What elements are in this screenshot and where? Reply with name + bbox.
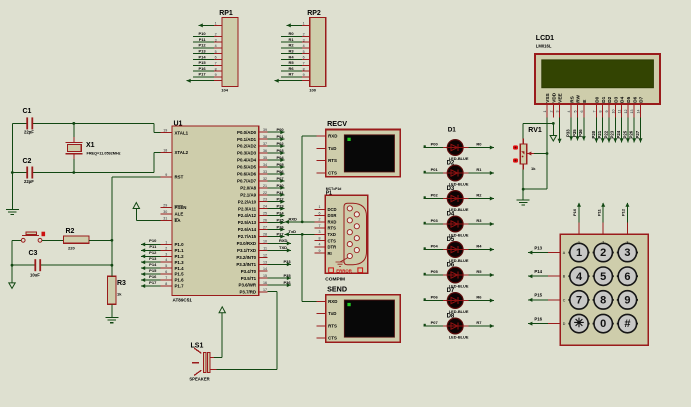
svg-text:RXD: RXD [328, 299, 337, 304]
svg-text:RXD: RXD [328, 219, 337, 224]
svg-text:6: 6 [215, 56, 217, 60]
svg-text:CTS: CTS [328, 336, 337, 341]
svg-text:P15: P15 [534, 293, 542, 298]
svg-text:3: 3 [215, 38, 217, 42]
svg-text:D5: D5 [447, 237, 455, 243]
svg-text:P11: P11 [596, 208, 601, 216]
svg-text:VSS: VSS [545, 93, 550, 102]
svg-text:P00: P00 [431, 142, 439, 147]
svg-text:P11: P11 [199, 37, 207, 42]
svg-text:D6: D6 [447, 262, 455, 268]
svg-text:P25: P25 [622, 130, 627, 138]
svg-text:1: 1 [215, 22, 217, 26]
svg-text:R3: R3 [117, 280, 126, 287]
svg-text:P12: P12 [621, 208, 626, 216]
svg-text:2: 2 [303, 33, 305, 37]
svg-text:P01: P01 [431, 167, 439, 172]
svg-text:R3: R3 [476, 218, 482, 223]
svg-text:P0.3/AD3: P0.3/AD3 [237, 151, 257, 156]
svg-text:P3.7/RD: P3.7/RD [240, 290, 257, 295]
svg-text:P20: P20 [277, 183, 285, 188]
svg-text:EA: EA [175, 218, 182, 223]
svg-text:P3.6/WR: P3.6/WR [239, 283, 257, 288]
svg-text:7: 7 [576, 295, 582, 307]
svg-text:10: 10 [611, 110, 615, 114]
svg-text:ERROR: ERROR [336, 268, 352, 273]
svg-text:D1: D1 [601, 96, 606, 102]
svg-text:P20: P20 [591, 130, 596, 138]
svg-text:9: 9 [624, 295, 630, 307]
svg-text:29: 29 [163, 204, 167, 208]
svg-text:10: 10 [263, 239, 267, 243]
svg-text:P2.2/A10: P2.2/A10 [238, 199, 257, 204]
svg-text:D4: D4 [447, 211, 455, 217]
svg-text:RXD: RXD [289, 216, 298, 221]
svg-text:R2: R2 [476, 193, 482, 198]
svg-text:12: 12 [263, 253, 267, 257]
svg-text:P15: P15 [149, 268, 157, 273]
svg-text:30: 30 [163, 210, 167, 214]
svg-text:C1: C1 [23, 108, 32, 115]
svg-text:P01: P01 [277, 134, 285, 139]
svg-text:4: 4 [567, 111, 571, 113]
svg-text:P13: P13 [534, 245, 542, 250]
svg-text:TxD: TxD [328, 311, 336, 316]
svg-text:1: 1 [578, 241, 580, 245]
svg-text:2: 2 [600, 247, 606, 259]
svg-text:11: 11 [618, 110, 622, 114]
svg-text:R0: R0 [288, 31, 294, 36]
svg-text:P33: P33 [284, 259, 292, 264]
svg-text:8: 8 [600, 295, 606, 307]
svg-text:9: 9 [215, 73, 217, 77]
svg-text:R5: R5 [476, 269, 482, 274]
svg-text:17: 17 [263, 288, 267, 292]
svg-text:P1.0: P1.0 [175, 242, 185, 247]
svg-text:LED-BLUE: LED-BLUE [449, 334, 469, 339]
svg-text:P05: P05 [277, 162, 285, 167]
svg-text:R4: R4 [476, 244, 482, 249]
svg-text:P03: P03 [277, 148, 285, 153]
svg-text:LM016L: LM016L [536, 44, 552, 49]
svg-text:P1.6: P1.6 [175, 278, 185, 283]
svg-text:DTR: DTR [328, 245, 337, 250]
svg-text:P2.7/A15: P2.7/A15 [238, 234, 257, 239]
svg-text:P3.0/RXD: P3.0/RXD [237, 241, 257, 246]
svg-text:P0.6/AD6: P0.6/AD6 [237, 172, 257, 177]
svg-text:C: C [563, 298, 566, 302]
svg-text:R1: R1 [476, 167, 482, 172]
svg-text:4: 4 [215, 44, 217, 48]
svg-text:P14: P14 [149, 262, 157, 267]
svg-text:27: 27 [263, 226, 267, 230]
svg-text:D8: D8 [447, 313, 455, 319]
svg-text:6: 6 [580, 111, 584, 113]
svg-text:TxD: TxD [289, 229, 297, 234]
svg-text:14: 14 [637, 110, 641, 114]
svg-text:RTS: RTS [328, 226, 337, 231]
svg-text:25: 25 [263, 212, 267, 216]
svg-text:35: 35 [263, 156, 267, 160]
svg-text:P27: P27 [277, 231, 285, 236]
svg-text:R5: R5 [288, 60, 294, 65]
svg-text:5: 5 [600, 271, 606, 283]
svg-text:P3.3/INT1: P3.3/INT1 [236, 262, 256, 267]
svg-text:RXD: RXD [279, 238, 288, 243]
svg-text:P36: P36 [578, 129, 583, 137]
svg-text:1: 1 [543, 111, 547, 113]
svg-text:P1.2: P1.2 [175, 254, 185, 259]
svg-text:P0.4/AD4: P0.4/AD4 [237, 158, 257, 163]
svg-text:D6: D6 [632, 96, 637, 102]
svg-text:P21: P21 [277, 190, 285, 195]
svg-text:P0.5/AD5: P0.5/AD5 [237, 165, 257, 170]
svg-text:SEND: SEND [327, 284, 347, 293]
svg-text:5: 5 [165, 264, 167, 268]
svg-text:1: 1 [576, 247, 582, 259]
svg-text:5: 5 [574, 111, 578, 113]
svg-text:22: 22 [263, 191, 267, 195]
svg-text:P12: P12 [198, 43, 206, 48]
svg-text:RST: RST [175, 175, 184, 180]
svg-text:RTS: RTS [328, 158, 337, 163]
svg-text:VDD: VDD [551, 92, 556, 103]
svg-text:R6: R6 [476, 295, 482, 300]
svg-text:RP1: RP1 [219, 10, 233, 17]
svg-text:P1.4: P1.4 [175, 266, 185, 271]
svg-text:P13: P13 [149, 256, 157, 261]
svg-text:7: 7 [165, 276, 167, 280]
svg-text:P2.5/A13: P2.5/A13 [238, 220, 257, 225]
svg-text:P00: P00 [277, 127, 285, 132]
svg-text:✳: ✳ [574, 316, 585, 330]
svg-text:P27: P27 [635, 130, 640, 138]
svg-text:19: 19 [163, 129, 167, 133]
svg-text:COMPIM: COMPIM [325, 277, 345, 283]
svg-text:R1: R1 [288, 37, 294, 42]
svg-text:P3.2/INT0: P3.2/INT0 [236, 255, 256, 260]
svg-text:TXD: TXD [279, 245, 287, 250]
svg-text:P04: P04 [277, 155, 285, 160]
svg-text:26: 26 [263, 219, 267, 223]
svg-text:13: 13 [263, 260, 267, 264]
svg-text:24: 24 [263, 205, 267, 209]
svg-text:11: 11 [263, 246, 267, 250]
svg-text:C3: C3 [29, 250, 38, 257]
svg-text:D2: D2 [447, 160, 455, 166]
svg-text:D5: D5 [626, 96, 631, 102]
svg-text:P16: P16 [149, 274, 157, 279]
svg-text:7: 7 [215, 62, 217, 66]
svg-text:R6: R6 [288, 66, 294, 71]
svg-text:P3.4/T0: P3.4/T0 [241, 269, 257, 274]
svg-text:16: 16 [263, 281, 267, 285]
svg-text:P0.0/AD0: P0.0/AD0 [237, 130, 257, 135]
svg-text:1: 1 [319, 205, 321, 209]
svg-text:P22: P22 [603, 130, 608, 138]
svg-text:DCD: DCD [328, 207, 337, 212]
svg-text:P02: P02 [431, 193, 439, 198]
svg-text:XTAL2: XTAL2 [175, 150, 189, 155]
svg-text:P0.7/AD7: P0.7/AD7 [237, 178, 257, 183]
svg-text:5: 5 [303, 50, 305, 54]
svg-text:P24: P24 [616, 130, 621, 138]
svg-text:7: 7 [303, 62, 305, 66]
svg-text:220: 220 [68, 245, 75, 250]
svg-text:D7: D7 [447, 288, 455, 294]
svg-text:R7: R7 [288, 72, 294, 77]
svg-text:P3.1/TXD: P3.1/TXD [237, 248, 256, 253]
svg-text:RI: RI [328, 251, 332, 256]
svg-text:RXD: RXD [328, 134, 337, 139]
svg-text:FREQ=11.0592MHz: FREQ=11.0592MHz [87, 152, 121, 156]
svg-text:P24: P24 [277, 211, 285, 216]
svg-text:P22: P22 [277, 197, 285, 202]
svg-text:8: 8 [165, 282, 167, 286]
svg-text:D7: D7 [639, 96, 644, 102]
svg-text:P03: P03 [431, 218, 439, 223]
svg-text:ALE: ALE [175, 212, 184, 217]
svg-text:R2: R2 [66, 228, 75, 235]
svg-text:2: 2 [549, 111, 553, 113]
svg-text:6: 6 [165, 270, 167, 274]
svg-text:D: D [563, 322, 566, 326]
svg-text:7: 7 [592, 111, 596, 113]
svg-text:39: 39 [263, 128, 267, 132]
svg-text:37: 37 [263, 142, 267, 146]
svg-text:18: 18 [163, 149, 167, 153]
svg-text:D3: D3 [447, 186, 455, 192]
svg-text:9: 9 [319, 249, 321, 253]
svg-text:104: 104 [221, 87, 228, 92]
svg-text:4: 4 [303, 44, 305, 48]
svg-text:CTS: CTS [328, 170, 337, 175]
svg-text:AT89C51: AT89C51 [173, 297, 193, 302]
svg-text:15: 15 [263, 274, 267, 278]
svg-text:P16: P16 [534, 316, 542, 321]
svg-text:P23: P23 [277, 204, 285, 209]
svg-text:1: 1 [165, 240, 167, 244]
svg-text:8: 8 [319, 236, 321, 240]
svg-text:RW: RW [576, 94, 581, 102]
svg-text:P16: P16 [198, 66, 206, 71]
svg-text:P15: P15 [198, 60, 206, 65]
svg-text:LS1: LS1 [191, 343, 204, 350]
svg-text:4: 4 [576, 271, 583, 283]
svg-text:P0.2/AD2: P0.2/AD2 [237, 144, 257, 149]
svg-text:D1: D1 [448, 127, 457, 134]
svg-text:P0.1/AD1: P0.1/AD1 [237, 137, 257, 142]
svg-text:1: 1 [303, 22, 305, 26]
svg-text:P06: P06 [277, 169, 285, 174]
svg-text:SPEAKER: SPEAKER [189, 376, 209, 381]
svg-text:D2: D2 [607, 96, 612, 102]
svg-text:P1.1: P1.1 [175, 248, 185, 253]
svg-text:P2.6/A14: P2.6/A14 [238, 227, 257, 232]
svg-text:100: 100 [309, 87, 316, 92]
svg-text:D3: D3 [613, 96, 618, 102]
svg-text:22pF: 22pF [24, 179, 34, 184]
svg-text:P14: P14 [198, 54, 206, 59]
svg-text:U1: U1 [174, 121, 183, 128]
svg-text:38: 38 [263, 135, 267, 139]
svg-text:LCD1: LCD1 [536, 35, 554, 42]
svg-text:28: 28 [263, 232, 267, 236]
svg-text:9: 9 [303, 73, 305, 77]
svg-text:8: 8 [599, 111, 603, 113]
svg-text:C2: C2 [23, 158, 32, 165]
svg-text:P26: P26 [277, 225, 285, 230]
svg-text:6: 6 [624, 271, 630, 283]
svg-text:4: 4 [165, 258, 167, 262]
svg-text:P07: P07 [431, 320, 439, 325]
svg-text:CTS: CTS [328, 238, 337, 243]
svg-text:1k: 1k [531, 166, 536, 171]
svg-text:3: 3 [165, 252, 167, 256]
svg-text:P13: P13 [198, 49, 206, 54]
svg-text:2: 2 [215, 33, 217, 37]
svg-text:TxD: TxD [328, 146, 336, 151]
svg-text:P23: P23 [610, 130, 615, 138]
svg-text:R3: R3 [288, 49, 294, 54]
svg-text:P25: P25 [277, 218, 285, 223]
svg-text:#: # [624, 318, 630, 330]
svg-text:E: E [582, 100, 587, 103]
svg-text:13: 13 [630, 110, 634, 114]
svg-text:P17: P17 [198, 72, 206, 77]
svg-text:3: 3 [303, 38, 305, 42]
svg-text:RTS: RTS [328, 323, 337, 328]
svg-text:R4: R4 [288, 54, 294, 59]
svg-text:P11: P11 [149, 244, 157, 249]
svg-text:PSEN: PSEN [175, 205, 187, 210]
svg-text:3: 3 [319, 230, 321, 234]
svg-text:X1: X1 [86, 142, 95, 149]
svg-text:32: 32 [263, 177, 267, 181]
svg-text:P26: P26 [629, 130, 634, 138]
svg-text:P35: P35 [284, 273, 292, 278]
svg-text:12: 12 [624, 110, 628, 114]
svg-text:RV1: RV1 [528, 127, 542, 134]
svg-text:P10: P10 [198, 31, 206, 36]
svg-text:4: 4 [319, 243, 321, 247]
svg-text:9: 9 [165, 173, 167, 177]
svg-text:8: 8 [215, 67, 217, 71]
svg-text:P12: P12 [149, 250, 157, 255]
svg-text:D0: D0 [595, 96, 600, 102]
svg-text:34: 34 [263, 163, 267, 167]
svg-text:9: 9 [605, 111, 609, 113]
svg-text:6: 6 [303, 56, 305, 60]
svg-text:33: 33 [263, 170, 267, 174]
svg-text:P1: P1 [326, 191, 332, 197]
svg-text:DSR: DSR [328, 213, 337, 218]
svg-text:RP2: RP2 [307, 10, 321, 17]
svg-text:P17: P17 [149, 280, 157, 285]
svg-text:2: 2 [165, 246, 167, 250]
svg-text:3: 3 [624, 247, 630, 259]
svg-text:P04: P04 [431, 244, 439, 249]
svg-text:P1.7: P1.7 [175, 284, 185, 289]
svg-text:P2.3/A11: P2.3/A11 [238, 206, 257, 211]
svg-text:P2.4/A12: P2.4/A12 [238, 213, 257, 218]
svg-text:7: 7 [319, 224, 321, 228]
svg-text:VEE: VEE [558, 93, 563, 102]
svg-text:P05: P05 [431, 269, 439, 274]
svg-text:P14: P14 [534, 269, 542, 274]
svg-text:8: 8 [303, 67, 305, 71]
svg-text:P07: P07 [277, 176, 285, 181]
svg-text:D4: D4 [620, 96, 625, 102]
svg-text:P02: P02 [277, 141, 285, 146]
svg-text:P21: P21 [597, 130, 602, 138]
svg-text:P1.3: P1.3 [175, 260, 185, 265]
svg-text:10uF: 10uF [30, 272, 40, 277]
svg-text:P1.5: P1.5 [175, 272, 185, 277]
svg-text:P06: P06 [431, 295, 439, 300]
svg-text:R7: R7 [476, 320, 482, 325]
svg-text:22pF: 22pF [24, 130, 34, 135]
svg-text:P2.1/A9: P2.1/A9 [240, 192, 256, 197]
svg-text:P3.5/T1: P3.5/T1 [241, 276, 257, 281]
svg-text:14: 14 [263, 267, 267, 271]
svg-text:31: 31 [163, 217, 167, 221]
svg-text:1k: 1k [117, 292, 122, 297]
svg-text:2: 2 [602, 241, 604, 245]
svg-text:P10: P10 [572, 208, 577, 216]
svg-text:RS: RS [569, 96, 574, 103]
svg-text:23: 23 [263, 198, 267, 202]
svg-text:P36: P36 [284, 280, 292, 285]
svg-text:R2: R2 [288, 43, 294, 48]
svg-text:XTAL1: XTAL1 [175, 130, 189, 135]
svg-text:P33: P33 [566, 129, 571, 137]
svg-text:36: 36 [263, 149, 267, 153]
svg-text:3: 3 [626, 241, 628, 245]
svg-text:21: 21 [263, 184, 267, 188]
svg-text:3: 3 [556, 111, 560, 113]
svg-text:P2.0/A8: P2.0/A8 [240, 185, 256, 190]
svg-text:P35: P35 [572, 129, 577, 137]
svg-text:P10: P10 [149, 238, 157, 243]
svg-text:5: 5 [215, 50, 217, 54]
svg-text:RECV: RECV [327, 119, 347, 128]
svg-text:R0: R0 [476, 142, 482, 147]
svg-text:0: 0 [600, 318, 606, 330]
svg-text:6: 6 [319, 211, 321, 215]
svg-text:2: 2 [319, 218, 321, 222]
svg-text:TXD: TXD [328, 232, 336, 237]
